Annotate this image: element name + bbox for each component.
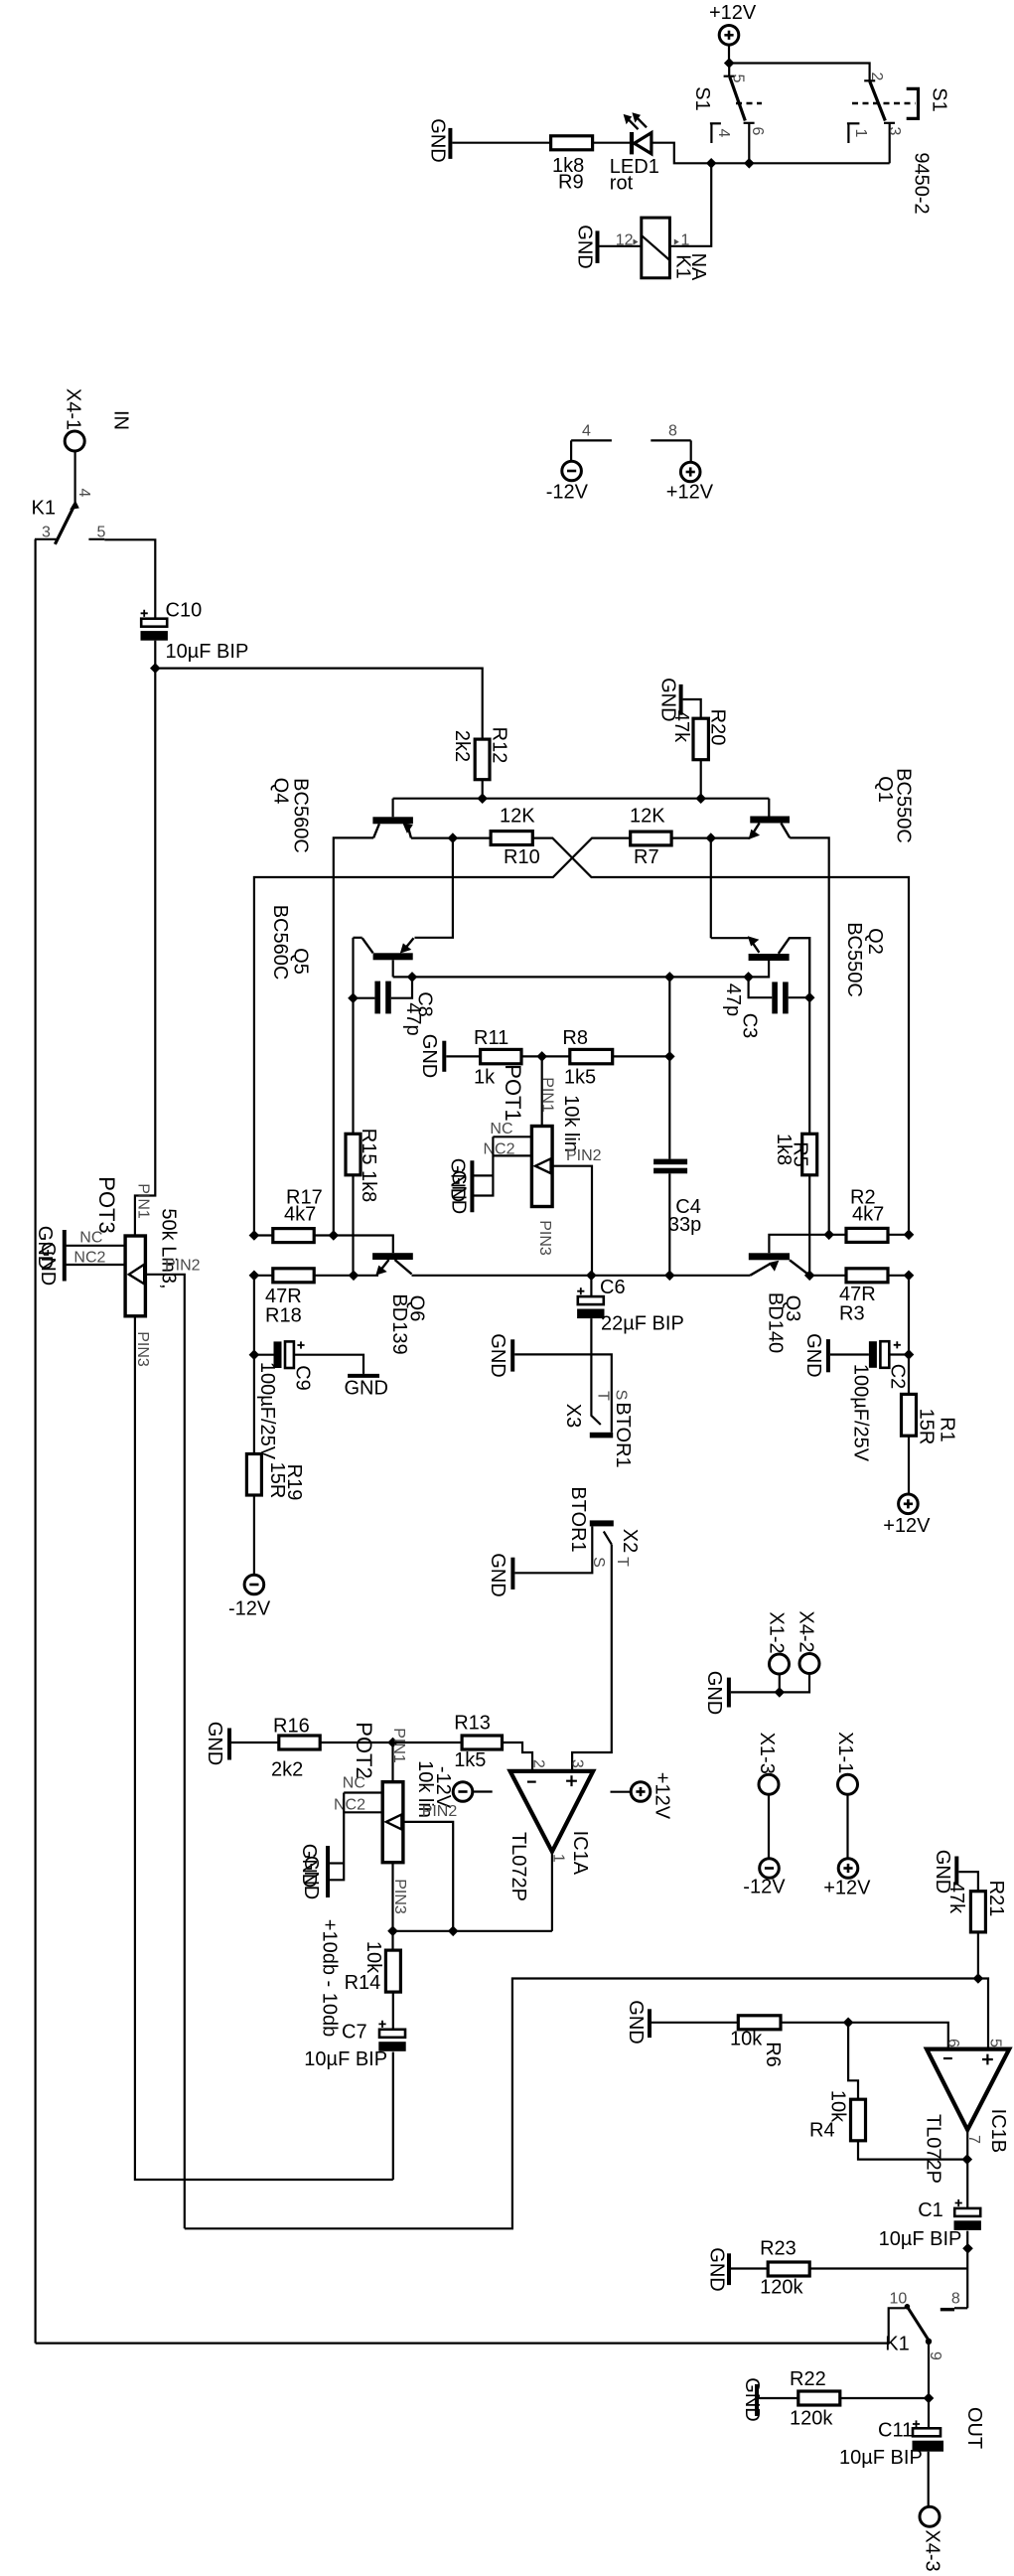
- pin label PIN1 (POT2): [390, 1728, 407, 1763]
- svg-text:IC1B: IC1B: [987, 2109, 1009, 2153]
- svg-text:47k: 47k: [945, 1882, 967, 1914]
- svg-text:10k: 10k: [362, 1941, 384, 1974]
- ground (R11): [418, 1034, 444, 1078]
- svg-text:3: 3: [42, 525, 51, 541]
- contact mark 1: [847, 123, 869, 143]
- pin label PIN2: [566, 1147, 602, 1164]
- svg-text:4: 4: [715, 129, 732, 138]
- svg-text:10: 10: [890, 2291, 908, 2308]
- pin label PIN1: [539, 1077, 556, 1113]
- wire: [781, 2023, 948, 2049]
- svg-text:C6: C6: [600, 1277, 626, 1298]
- label TL072P (IC1A): [507, 1832, 529, 1901]
- junction: [745, 159, 754, 168]
- junction: [665, 973, 674, 982]
- svg-text:4k7: 4k7: [284, 1204, 316, 1226]
- svg-text:NA: NA: [687, 253, 709, 281]
- junction: [249, 1231, 258, 1240]
- wire: [392, 2052, 394, 2181]
- ground (POT1): [447, 1158, 473, 1214]
- svg-text:R11: R11: [474, 1027, 508, 1049]
- wire: [482, 780, 484, 799]
- svg-text:R1: R1: [936, 1417, 957, 1442]
- ground (R22): [741, 2377, 763, 2421]
- pin label PIN2 (POT2): [422, 1803, 458, 1820]
- resistor R8: [562, 1027, 612, 1089]
- svg-text:120k: 120k: [760, 2277, 803, 2299]
- wire: [411, 836, 491, 838]
- wire: [668, 1056, 670, 1158]
- junction: [962, 2155, 971, 2164]
- label Q3: [765, 1292, 804, 1353]
- wire (POT1 wiper): [552, 1166, 592, 1276]
- wire (Q6 base): [334, 1236, 393, 1254]
- svg-text:rot: rot: [610, 173, 634, 195]
- wire: [254, 1275, 273, 1277]
- svg-text:GND: GND: [706, 2247, 728, 2291]
- junction: [963, 2244, 972, 2253]
- svg-text:50k Lin3,: 50k Lin3,: [158, 1208, 180, 1288]
- resistor R21: [945, 1881, 1007, 1932]
- svg-text:GND: GND: [204, 1722, 225, 1765]
- transistor Q4: [372, 799, 413, 838]
- svg-text:PIN1: PIN1: [135, 1183, 152, 1219]
- resistor R2: [846, 1187, 888, 1243]
- svg-text:R3: R3: [839, 1303, 865, 1325]
- junction: [665, 1271, 674, 1280]
- wire: [613, 1055, 670, 1057]
- svg-text:3: 3: [569, 1759, 586, 1768]
- resistor R12: [451, 727, 510, 780]
- label OUT: [963, 2407, 985, 2449]
- svg-text:10k: 10k: [730, 2029, 763, 2050]
- pin label PIN3 (POT3): [134, 1331, 151, 1367]
- svg-text:10µF BIP: 10µF BIP: [839, 2447, 923, 2469]
- jack X2: [514, 1486, 640, 1573]
- transistor Q3: [749, 1253, 809, 1276]
- capacitor C10: [141, 599, 249, 663]
- svg-text:GND: GND: [741, 2377, 763, 2421]
- svg-text:33p: 33p: [668, 1214, 701, 1236]
- wire: [600, 245, 642, 247]
- svg-text:BC550C: BC550C: [892, 768, 914, 843]
- pin label PIN3: [536, 1220, 553, 1256]
- label Q1: [874, 768, 914, 843]
- wire (POT3 pin3): [135, 1316, 393, 2180]
- svg-text:K1: K1: [885, 2333, 909, 2354]
- svg-text:S1: S1: [691, 86, 713, 110]
- wire: [253, 1355, 255, 1454]
- wire: [393, 1930, 552, 1932]
- contact mark 4: [710, 123, 732, 143]
- svg-text:PIN2: PIN2: [566, 1147, 602, 1164]
- wire: [452, 142, 550, 144]
- resistor R22: [790, 2368, 840, 2430]
- transistor Q1: [749, 799, 791, 839]
- resistor R18: [265, 1269, 314, 1327]
- svg-text:R16: R16: [273, 1716, 310, 1738]
- svg-text:BTOR1: BTOR1: [612, 1402, 634, 1467]
- svg-text:GND: GND: [625, 2000, 647, 2044]
- wire: [294, 1355, 363, 1374]
- wire (IC1B out): [966, 2130, 968, 2208]
- svg-text:T: T: [614, 1557, 631, 1567]
- LED LED1: [610, 112, 659, 194]
- junction: [349, 993, 358, 1002]
- ground (R23): [706, 2247, 730, 2291]
- junction: [973, 1974, 982, 1983]
- svg-text:GND: GND: [487, 1333, 508, 1377]
- svg-text:5: 5: [730, 75, 747, 83]
- wire: [652, 2022, 738, 2024]
- wire (IC1A out): [551, 1852, 553, 1931]
- pin label 5: [987, 2039, 1004, 2047]
- resistor R9: [551, 136, 593, 194]
- wire: [830, 1353, 869, 1355]
- label -12V (POT2): [432, 1766, 454, 1809]
- switch K1 blade: [55, 489, 92, 544]
- wire: [808, 997, 810, 1134]
- svg-text:R23: R23: [760, 2238, 797, 2260]
- svg-text:X1-2: X1-2: [766, 1611, 788, 1653]
- junction: [707, 159, 716, 168]
- svg-text:C10: C10: [166, 599, 203, 621]
- wire: [710, 838, 712, 939]
- label POT2: [352, 1722, 376, 1778]
- pin label NC2 (POT3): [73, 1250, 105, 1267]
- wire: [809, 1275, 846, 1277]
- svg-text:PIN3: PIN3: [134, 1331, 151, 1367]
- svg-text:GND: GND: [37, 1242, 59, 1286]
- junction: [904, 1350, 913, 1359]
- svg-text:GND: GND: [300, 1856, 322, 1899]
- svg-text:2: 2: [530, 1759, 547, 1768]
- wire: [683, 699, 701, 718]
- pin label 7: [965, 2135, 982, 2144]
- svg-text:-12V: -12V: [228, 1598, 271, 1620]
- wire: [928, 2398, 930, 2428]
- svg-text:R8: R8: [562, 1027, 588, 1049]
- svg-text:10µF BIP: 10µF BIP: [879, 2228, 962, 2250]
- svg-text:NC2: NC2: [334, 1796, 365, 1813]
- jack X3: [562, 1390, 634, 1468]
- svg-text:PIN2: PIN2: [422, 1803, 458, 1820]
- svg-text:1: 1: [852, 129, 869, 138]
- junction: [904, 1230, 913, 1239]
- relay K1 coil: [616, 218, 709, 281]
- wire (PIN2 net): [185, 1979, 978, 2229]
- power +12V (top): [709, 2, 757, 45]
- ground (POT2): [298, 1844, 328, 1899]
- junction: [249, 1271, 258, 1280]
- pin label 1: [550, 1854, 567, 1863]
- svg-text:GND: GND: [418, 1034, 440, 1078]
- svg-text:PIN1: PIN1: [539, 1077, 556, 1113]
- resistor R19: [246, 1454, 305, 1501]
- wire: [652, 143, 711, 164]
- svg-text:10µF BIP: 10µF BIP: [304, 2048, 387, 2070]
- svg-text:S1: S1: [929, 87, 950, 111]
- resistor R5: [773, 1134, 817, 1175]
- svg-text:OUT: OUT: [963, 2407, 985, 2449]
- switch K1 pin 4 wire: [73, 451, 75, 503]
- switch K1 pin 10: [889, 2291, 911, 2344]
- wire: [780, 1674, 809, 1693]
- wire: [446, 1055, 480, 1057]
- svg-text:S: S: [590, 1557, 607, 1568]
- junction: [706, 833, 715, 842]
- svg-text:5: 5: [987, 2039, 1004, 2047]
- svg-text:T: T: [595, 1391, 612, 1401]
- resistor R13: [454, 1713, 502, 1772]
- svg-text:R15 1k8: R15 1k8: [358, 1129, 379, 1203]
- junction: [349, 1271, 358, 1280]
- junction: [449, 1926, 458, 1935]
- svg-text:TL072P: TL072P: [923, 2114, 944, 2184]
- potentiometer POT3: [125, 1236, 145, 1316]
- connector X1-2: [766, 1611, 790, 1674]
- junction: [844, 2018, 853, 2027]
- wire (base rail): [393, 798, 770, 800]
- junction: [587, 1271, 596, 1280]
- svg-text:5: 5: [97, 525, 106, 541]
- wire: [829, 1234, 846, 1236]
- capacitor C7: [304, 2021, 405, 2070]
- wire: [253, 1276, 255, 1355]
- capacitor C6: [577, 1277, 684, 1335]
- svg-text:R21: R21: [985, 1881, 1007, 1917]
- svg-text:BC560C: BC560C: [289, 778, 311, 853]
- wire: [668, 1173, 670, 1276]
- wire: [779, 1674, 781, 1692]
- wire: [591, 1318, 600, 1425]
- ground (R20): [656, 678, 680, 721]
- svg-text:1k5: 1k5: [454, 1749, 486, 1771]
- svg-text:Q2: Q2: [864, 928, 886, 955]
- ground (X3): [487, 1333, 512, 1377]
- junction: [407, 973, 416, 982]
- resistor R1: [902, 1394, 958, 1444]
- wire: [731, 2267, 768, 2269]
- wire: [729, 64, 869, 81]
- ground (R9): [426, 118, 450, 162]
- label S1 (left): [691, 86, 713, 110]
- svg-text:22µF BIP: 22µF BIP: [601, 1313, 684, 1335]
- svg-text:100µF/25V: 100µF/25V: [849, 1364, 871, 1462]
- connector X4-2: [796, 1610, 820, 1673]
- pin label 2: [530, 1759, 547, 1768]
- svg-text:-12V: -12V: [546, 482, 589, 504]
- svg-text:+12V: +12V: [651, 1772, 672, 1820]
- wire: [958, 1872, 978, 1892]
- wire: [334, 837, 373, 1235]
- svg-text:PIN3: PIN3: [536, 1220, 553, 1256]
- wire: [768, 1794, 770, 1859]
- switch S1 pole B pin 3: [884, 123, 903, 164]
- junction: [904, 1271, 913, 1280]
- resistor R15: [346, 1129, 379, 1203]
- resistor R17: [273, 1187, 323, 1243]
- capacitor C11: [839, 2420, 943, 2470]
- wire: [541, 1056, 543, 1126]
- svg-text:X4-3: X4-3: [921, 2529, 942, 2571]
- svg-text:10k lin: 10k lin: [560, 1095, 582, 1152]
- label K1 (input): [32, 498, 56, 520]
- svg-text:GND: GND: [345, 1378, 388, 1400]
- wire: [254, 1354, 274, 1356]
- svg-text:R18: R18: [265, 1305, 302, 1327]
- junction: [478, 794, 487, 803]
- wire: [314, 1234, 334, 1236]
- junction: [329, 1231, 338, 1240]
- capacitor C2: [849, 1341, 908, 1462]
- power -12V (IC1A): [453, 1782, 493, 1802]
- wire: [728, 45, 730, 63]
- resistor R14: [345, 1941, 401, 1994]
- resistor R10: [491, 806, 540, 869]
- wire: [254, 1234, 273, 1236]
- svg-text:NC: NC: [79, 1230, 102, 1247]
- wire: [888, 1275, 909, 1277]
- connector X4-3: [920, 2506, 942, 2571]
- junction: [388, 1738, 397, 1746]
- wire: [668, 977, 670, 1056]
- svg-text:X4-1: X4-1: [63, 388, 84, 430]
- wire: [928, 2342, 930, 2398]
- wire (X2 tip): [572, 1545, 612, 1771]
- ground (X1-2): [703, 1671, 729, 1715]
- ground (C2): [802, 1333, 828, 1377]
- ground (relay): [574, 225, 598, 268]
- svg-text:10k: 10k: [826, 2090, 848, 2123]
- power +12V (IC1A): [611, 1772, 673, 1820]
- switch K1 pin 8: [941, 2291, 967, 2310]
- label 10k lin (POT2): [414, 1760, 436, 1818]
- resistor R7: [630, 806, 671, 869]
- svg-text:GND: GND: [487, 1553, 508, 1596]
- wire: [858, 2141, 967, 2160]
- label IC1A: [569, 1831, 591, 1876]
- connector X1-1: [834, 1732, 858, 1794]
- label TL072P (IC1B): [923, 2114, 944, 2184]
- svg-text:12K: 12K: [500, 806, 535, 828]
- svg-text:X1-1: X1-1: [834, 1732, 856, 1773]
- wire: [34, 539, 36, 2344]
- svg-text:C9: C9: [292, 1365, 314, 1391]
- transistor Q6: [354, 1253, 413, 1276]
- svg-text:POT1: POT1: [501, 1064, 525, 1121]
- potentiometer POT1: [531, 1127, 552, 1207]
- svg-text:IC1A: IC1A: [569, 1831, 591, 1876]
- wire: [669, 163, 711, 246]
- switch S1 coupling dashes: [736, 102, 916, 104]
- svg-text:BD140: BD140: [765, 1292, 787, 1353]
- switch K1 pin 3: [35, 525, 57, 541]
- wire: [809, 2267, 967, 2269]
- wire (cross): [532, 838, 909, 1235]
- junction: [924, 2393, 933, 2402]
- capacitor C3: [722, 977, 809, 1038]
- transistor Q5 base wire: [392, 960, 394, 977]
- svg-text:C1: C1: [918, 2199, 943, 2221]
- wire: [731, 1691, 780, 1693]
- label IN: [109, 410, 131, 430]
- switch K1 blade (output): [885, 2307, 943, 2360]
- wire: [391, 1863, 393, 1950]
- svg-text:R5: R5: [790, 1141, 811, 1167]
- svg-text:IN: IN: [109, 410, 131, 430]
- label +10db - 10db: [318, 1919, 340, 2037]
- svg-text:R10: R10: [504, 846, 540, 868]
- wire: [503, 1743, 533, 1771]
- wire: [888, 1234, 909, 1236]
- switch S1 pole A pin 5: [724, 64, 747, 121]
- wire (cross): [254, 838, 631, 1236]
- wire (POT3 wiper): [145, 1275, 184, 2229]
- svg-text:+12V: +12V: [666, 482, 714, 504]
- svg-text:X1-3: X1-3: [756, 1733, 778, 1774]
- power -12V (pin4): [546, 423, 612, 504]
- svg-text:R7: R7: [634, 846, 659, 868]
- svg-text:GND: GND: [426, 118, 448, 162]
- svg-text:2k2: 2k2: [451, 730, 473, 762]
- connector X4-1: [65, 431, 84, 451]
- svg-text:BC560C: BC560C: [269, 905, 291, 981]
- power +12V (X1-1): [823, 1859, 871, 1899]
- junction: [537, 1052, 546, 1061]
- svg-text:NC: NC: [343, 1775, 365, 1792]
- wire: [840, 2397, 929, 2399]
- power -12V (R19): [228, 1575, 271, 1619]
- resistor R23: [760, 2238, 809, 2299]
- wire: [700, 760, 702, 799]
- ground (C9): [345, 1376, 388, 1400]
- svg-text:1k5: 1k5: [564, 1067, 596, 1089]
- svg-text:+12V: +12V: [709, 2, 757, 24]
- wire: [135, 669, 155, 1236]
- junction: [388, 1926, 397, 1935]
- svg-text:4k7: 4k7: [852, 1204, 884, 1226]
- svg-text:Q5: Q5: [289, 948, 311, 975]
- wire: [154, 641, 156, 669]
- ground (X2): [487, 1553, 512, 1596]
- svg-text:R20: R20: [707, 709, 729, 746]
- junction: [249, 1350, 258, 1359]
- wire: [352, 1175, 354, 1276]
- wire: [392, 1992, 394, 2030]
- ground (R16): [204, 1722, 229, 1765]
- pin label NC: [490, 1121, 512, 1137]
- power +12V (R1): [883, 1494, 931, 1537]
- svg-text:PIN2: PIN2: [165, 1258, 201, 1275]
- resistor R11: [474, 1027, 521, 1089]
- svg-text:S: S: [612, 1390, 629, 1401]
- svg-text:GND: GND: [703, 1671, 725, 1715]
- svg-text:6: 6: [944, 2039, 961, 2047]
- transistor Q2: [711, 936, 809, 997]
- svg-text:K1: K1: [32, 498, 56, 520]
- resistor R3: [839, 1269, 888, 1325]
- wire (mirror rail): [393, 976, 749, 978]
- svg-text:GND: GND: [802, 1333, 824, 1377]
- switch K1 pin 5: [88, 525, 105, 541]
- wire: [978, 1979, 988, 2049]
- svg-text:15R: 15R: [915, 1409, 937, 1445]
- pin label PIN1 (POT3): [135, 1183, 152, 1219]
- wire: [846, 1794, 848, 1859]
- wire: [590, 1276, 592, 1296]
- wire: [908, 1276, 910, 1395]
